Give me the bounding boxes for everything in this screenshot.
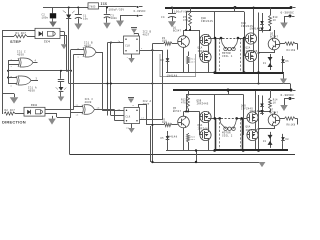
- ground rail thick: [214, 72, 284, 74]
- wire motor common return: [152, 162, 263, 164]
- MOSFET upper right: [245, 33, 256, 44]
- svg-text:D3: D3: [161, 59, 165, 62]
- wire IC2A inputs: [103, 110, 125, 112]
- ground rail thick': [214, 149, 288, 151]
- wire bottom frame: [69, 154, 295, 156]
- wire winding feed horizontal: [186, 11, 244, 13]
- capacitor C1 electrolytic: [77, 7, 79, 9]
- resistor R-gate left: [190, 8, 192, 14]
- wire gate input bus vertical: [8, 61, 10, 84]
- flip-flop IC2B: [124, 36, 140, 54]
- diode right column': [282, 134, 284, 144]
- wire gate row left: [184, 30, 200, 32]
- motor coil: [224, 47, 227, 50]
- ground arrow under C3: [106, 17, 108, 22]
- wire mid right: [253, 44, 255, 50]
- wire 5V feed to IC5: [43, 7, 88, 9]
- wire gate right upper': [243, 118, 245, 135]
- outer vertical to bus2: [258, 73, 260, 84]
- wire gate feed right: [259, 30, 271, 32]
- LED D2 power indicator: [68, 7, 70, 9]
- svg-text:D6: D6: [286, 60, 290, 63]
- wire center column right: [244, 12, 246, 38]
- MOSFET lower right: [245, 50, 256, 61]
- svg-text:4030: 4030: [85, 101, 92, 104]
- ground arrow under D7: [60, 91, 62, 96]
- resistor sense left: [188, 52, 190, 57]
- ground drop top block: [283, 73, 285, 79]
- resistor base left: [164, 42, 172, 45]
- wire STEP input top: [2, 30, 35, 32]
- resistor base right: [280, 43, 285, 45]
- svg-text:IC3: IC3: [31, 104, 37, 107]
- svg-text:4K7: 4K7: [191, 138, 196, 141]
- supply + terminal': [290, 89, 293, 92]
- winding row': [208, 118, 221, 120]
- transistor BC547 left: [178, 36, 190, 48]
- wire IC3 out lower: [45, 113, 57, 115]
- svg-text:Z2: Z2: [263, 140, 267, 143]
- XOR gate IC1C: [18, 58, 19, 67]
- svg-text:10u: 10u: [83, 17, 88, 20]
- resistor R2: [4, 112, 15, 115]
- MOSFET upper right': [247, 112, 258, 123]
- svg-text:4027: 4027: [143, 34, 150, 37]
- ground rail thin: [166, 72, 214, 74]
- thick return left: [215, 38, 217, 73]
- resistor R-gate right': [270, 90, 272, 98]
- motor coil': [224, 127, 227, 130]
- wire IC2B Q output: [140, 50, 163, 52]
- ground rail thin': [166, 150, 214, 152]
- ground arrow left: [10, 97, 19, 103]
- resistor R-gate left': [188, 90, 190, 96]
- wire IC4 collector out: [60, 35, 67, 37]
- wire vertical feed right blocks: [152, 44, 154, 162]
- wire gnd stub left: [2, 93, 14, 95]
- thick return right: [243, 38, 245, 73]
- svg-text:IRFZ44S: IRFZ44S: [201, 20, 213, 23]
- winding leads: [221, 38, 226, 49]
- wire IC4 emitter to ground: [60, 31, 64, 33]
- wire middle bus vertical 1: [102, 52, 104, 111]
- wire BC547 right emitter': [274, 126, 276, 129]
- wire center column left: [214, 12, 216, 38]
- svg-text:IRFZ44S: IRFZ44S: [197, 103, 209, 106]
- svg-text:7805: 7805: [89, 5, 96, 8]
- svg-text:1N4148: 1N4148: [250, 27, 261, 30]
- ground arrow bottom right: [259, 162, 266, 167]
- wire IC5 output to supply terminals: [99, 6, 137, 8]
- node bottom junctions: [195, 149, 197, 151]
- svg-text:10: 10: [97, 106, 101, 109]
- thick return right': [242, 118, 244, 150]
- svg-text:IRFZ44S: IRFZ44S: [198, 50, 210, 53]
- wire gate right upper: [244, 38, 246, 56]
- node winding feed: [234, 6, 237, 9]
- wire feed drop left: [186, 12, 188, 30]
- motor outline dashed: [219, 38, 221, 73]
- wire IC2A Q output: [140, 119, 163, 121]
- zener pair': [270, 132, 272, 148]
- svg-text:COIL 2: COIL 2: [222, 135, 233, 138]
- wire drain top right: [253, 8, 255, 33]
- MOSFET lower right': [247, 129, 258, 140]
- ground arrow under IC3: [52, 116, 54, 119]
- svg-text:1K8: 1K8: [162, 121, 167, 124]
- wire middle bus vertical 3: [110, 43, 112, 116]
- svg-text:STEP: STEP: [10, 39, 21, 44]
- motor outline dashed': [219, 118, 221, 150]
- svg-text:4030: 4030: [84, 45, 91, 48]
- wire BC547 right emitter: [274, 50, 276, 53]
- transistor BC547 right': [268, 114, 280, 126]
- wire minus to ground: [120, 15, 137, 17]
- ground IC2A top: [128, 97, 134, 99]
- svg-text:100n: 100n: [42, 16, 49, 19]
- wire bus 2 drop right: [290, 84, 292, 90]
- wire - to ground: [284, 16, 290, 18]
- svg-text:IRFZ44S: IRFZ44S: [246, 50, 258, 53]
- svg-text:CLK: CLK: [125, 45, 130, 48]
- ground IC2B bottom: [131, 54, 133, 58]
- optocoupler IC3: [24, 107, 45, 116]
- wire center column left': [214, 94, 216, 118]
- outer vertical right': [258, 95, 260, 151]
- wire gate bus left: [199, 30, 201, 57]
- wire gate row left': [184, 111, 200, 113]
- MOSFET upper left': [200, 111, 211, 122]
- wire BC547 emitter: [183, 47, 185, 72]
- svg-text:1K8: 1K8: [291, 124, 296, 127]
- supply - terminal': [289, 97, 292, 100]
- XOR gate IC1C: [82, 105, 83, 115]
- zener pair: [270, 54, 272, 70]
- wire IC2B set to ground: [138, 33, 140, 36]
- wire source bottom right': [255, 141, 257, 151]
- ground IC2A bottom: [131, 124, 133, 129]
- supply + terminal: [290, 6, 293, 9]
- outline box diodes: [160, 54, 196, 77]
- XOR gate IC1B: [83, 47, 84, 57]
- svg-text:470: 470: [181, 102, 186, 105]
- diode left column': [167, 131, 169, 134]
- optocoupler IC4: [35, 28, 60, 38]
- wire gate bus left': [199, 112, 201, 136]
- outer vertical right: [258, 13, 260, 73]
- LED D7 under C6: [60, 82, 62, 87]
- wire left input bus: [2, 30, 4, 114]
- svg-text:100n: 100n: [111, 17, 118, 20]
- regulator IC5 7805: [88, 3, 99, 9]
- wire source bottom left: [208, 63, 210, 73]
- wire source bottom right: [253, 62, 255, 73]
- wire bottom stub: [196, 151, 198, 163]
- ground arrow IC4 out: [61, 44, 67, 49]
- resistor R-gate right: [270, 8, 272, 16]
- ground arrow supply: [280, 23, 288, 29]
- diode left column: [167, 50, 169, 57]
- wire mid right': [255, 123, 257, 129]
- node supply minus mid: [137, 15, 139, 17]
- wire base feed: [152, 43, 163, 45]
- wire BC547 emitter': [183, 128, 185, 151]
- diode pair upper: [262, 13, 264, 20]
- svg-text:6-30VDC: 6-30VDC: [281, 12, 295, 15]
- svg-text:4K7: 4K7: [191, 60, 196, 63]
- wire middle bus vertical 2: [107, 43, 109, 116]
- svg-text:1K: 1K: [273, 102, 277, 105]
- resistor sense left': [188, 132, 190, 135]
- diode pair upper': [262, 96, 264, 103]
- node winding feed': [227, 89, 230, 92]
- wire IC1C out to IC2A: [114, 110, 116, 121]
- svg-text:COIL 1: COIL 1: [222, 55, 233, 58]
- winding row: [208, 38, 222, 40]
- node supply plus mid: [137, 6, 139, 8]
- wire winding feed horizontal': [186, 94, 243, 96]
- wire drain top right': [255, 90, 257, 112]
- wire IC2B J input: [108, 42, 124, 44]
- svg-text:R2 4K7: R2 4K7: [5, 109, 16, 112]
- wire base feed': [147, 124, 164, 126]
- svg-text:1K8: 1K8: [162, 40, 167, 43]
- wire BC547 right collector': [274, 112, 276, 115]
- wire BC547 right collector: [274, 30, 276, 38]
- transistor BC547 left': [178, 116, 190, 128]
- svg-text:BC547: BC547: [173, 30, 182, 33]
- svg-text:DIRECTION: DIRECTION: [2, 120, 26, 125]
- wire logic bus 2: [69, 83, 290, 85]
- svg-text:1N4148: 1N4148: [250, 110, 261, 113]
- svg-text:1K8: 1K8: [291, 49, 296, 52]
- power rail thick': [173, 89, 291, 91]
- wire IC2A set: [138, 105, 140, 108]
- diode right column: [282, 56, 284, 66]
- wire aux vertical bottom: [150, 126, 152, 162]
- winding leads': [220, 118, 226, 128]
- wire vertical to IC2A: [162, 50, 164, 104]
- XOR gate IC1A: [16, 76, 17, 85]
- wire feed drop left': [186, 94, 188, 111]
- MOSFET lower left': [200, 129, 211, 140]
- wire source-drain mid left': [208, 123, 210, 130]
- resistor base right': [280, 118, 285, 120]
- svg-text:R1 4K7: R1 4K7: [16, 32, 27, 35]
- svg-text:IRFZ44S: IRFZ44S: [198, 128, 210, 131]
- transistor BC547 right: [268, 38, 280, 50]
- svg-text:IC4: IC4: [44, 40, 50, 43]
- wire logic bus 1: [8, 70, 71, 72]
- svg-text:6-30VDC: 6-30VDC: [134, 10, 147, 13]
- svg-text:C4: C4: [161, 16, 165, 19]
- power rail thick: [165, 7, 291, 9]
- wire source-drain mid left: [208, 46, 210, 52]
- ground arrow C4: [172, 17, 174, 22]
- ground arrow supply': [280, 105, 288, 111]
- capacitor C4: [171, 7, 173, 9]
- svg-text:4030: 4030: [28, 90, 35, 93]
- capacitor C2 (black body) above IC4: [52, 8, 54, 14]
- ground arrow into IC4: [52, 18, 54, 21]
- wire source bottom left': [208, 141, 210, 151]
- svg-text:4030: 4030: [17, 53, 24, 56]
- ground IC2B top: [131, 27, 137, 29]
- thick return left': [215, 118, 217, 150]
- svg-text:6-30VDC: 6-30VDC: [281, 94, 295, 97]
- flip-flop IC2A: [124, 108, 140, 124]
- svg-text:1K: 1K: [273, 19, 277, 22]
- MOSFET upper left: [200, 34, 211, 45]
- MOSFET lower left: [200, 51, 211, 62]
- node rail bottom: [227, 89, 229, 91]
- svg-text:BC547: BC547: [173, 110, 182, 113]
- svg-text:CLK: CLK: [126, 116, 131, 119]
- capacitor C3 on 5V bus: [106, 8, 108, 14]
- svg-text:D5: D5: [161, 137, 165, 140]
- wire gate feed right': [259, 111, 271, 113]
- ground arrow mid: [116, 21, 124, 27]
- wire IC3 out upper: [45, 109, 74, 111]
- wire D2 to logic bus: [68, 19, 70, 84]
- capacitor C6 on bus: [60, 71, 62, 79]
- wire BC547 collector: [183, 30, 185, 36]
- resistor R1: [14, 35, 27, 38]
- wire frame left drop: [69, 117, 71, 154]
- svg-text:Z1: Z1: [263, 62, 267, 65]
- svg-text:D8: D8: [286, 138, 290, 141]
- ground arrow under C1: [78, 18, 80, 23]
- wire center column right': [243, 94, 245, 118]
- wire BC547 collector': [183, 112, 185, 117]
- svg-text:1N4148: 1N4148: [167, 135, 178, 138]
- wire - to ground': [284, 98, 290, 100]
- supply - terminal: [289, 15, 292, 18]
- resistor base left': [164, 123, 172, 126]
- svg-text:100uF/35V: 100uF/35V: [109, 8, 125, 12]
- svg-text:470: 470: [183, 19, 188, 22]
